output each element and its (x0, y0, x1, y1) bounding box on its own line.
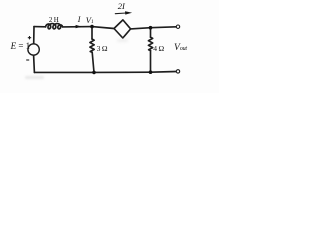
label 2I of dependent source (118, 1, 125, 11)
wire right junction to top output terminal (151, 26, 177, 29)
top output terminal open circle (176, 25, 179, 28)
arrowhead of 2I arrow (125, 11, 132, 14)
resistor R 3 ohm zigzag (90, 39, 94, 52)
voltage source E circle (28, 44, 39, 55)
inductor L 2H coil (46, 24, 63, 29)
bottom right junction dot (149, 70, 153, 74)
label 3 ohm (97, 44, 108, 53)
scan smudge below bottom-left corner (25, 76, 44, 80)
minus sign of source (26, 59, 29, 61)
wire 3-ohm bottom node to right bottom junction (94, 71, 151, 73)
resistor R 4 ohm zigzag (148, 37, 152, 50)
wire resistor 3ohm to bottom wire (92, 52, 94, 72)
label 2 H (49, 16, 59, 24)
wire left rail bottom (33, 55, 36, 72)
scan ghost below diamond (117, 39, 128, 42)
wire top-left corner to inductor (34, 26, 46, 28)
label E = 1 (11, 41, 31, 51)
label I current (78, 15, 81, 24)
wire inductor to node V1 (63, 26, 92, 28)
wire left rail top (33, 27, 35, 44)
wire node V1 to diamond (92, 27, 114, 29)
wire diamond to right junction (131, 28, 151, 29)
wire resistor 4ohm to bottom junction (150, 51, 152, 73)
label 4 ohm (153, 44, 164, 53)
bottom 3ohm junction dot (92, 71, 96, 75)
wire bottom left to 3-ohm bottom node (34, 71, 94, 73)
bottom output terminal open circle (176, 70, 179, 73)
node V1 junction dot (90, 25, 94, 29)
top right junction dot (149, 26, 153, 30)
dependent source 2I diamond (114, 20, 131, 38)
wire right bottom junction to bottom output terminal (151, 71, 177, 74)
arrow above diamond for 2I (115, 12, 126, 15)
plus sign of source (28, 36, 31, 39)
label V1 node (86, 15, 94, 25)
label Vout (174, 43, 187, 53)
wire node V1 down to resistor 3ohm (91, 27, 93, 39)
wire right junction down to resistor 4ohm (150, 28, 152, 38)
arrowhead current I on top wire (76, 25, 82, 28)
